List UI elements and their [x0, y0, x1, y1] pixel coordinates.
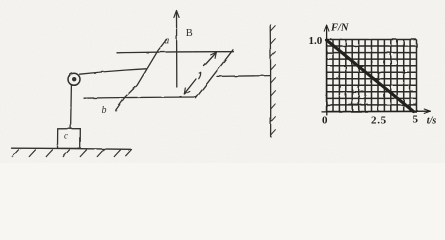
- graph: [327, 40, 417, 112]
- B field arrow line: [176, 11, 178, 87]
- ground: [12, 148, 131, 149]
- B arrowhead: [174, 11, 179, 18]
- grid vertical lines: [327, 40, 417, 112]
- pulley hub: [72, 77, 76, 81]
- bottom rail: [84, 97, 197, 98]
- svg-text:2.5: 2.5: [371, 114, 387, 126]
- svg-text:0: 0: [322, 114, 328, 126]
- pulley wheel: [68, 73, 80, 85]
- y axis arrowhead: [324, 25, 329, 31]
- rod ab diagonal: [116, 40, 167, 111]
- y axis: [326, 26, 328, 116]
- string pulley to block: [70, 85, 73, 129]
- rope loop to wall: [217, 75, 270, 78]
- svg-text:B: B: [186, 28, 193, 39]
- top rail: [117, 52, 233, 53]
- block c: [58, 129, 81, 149]
- dimension arrowhead top: [211, 52, 217, 58]
- right edge of plane: [196, 50, 233, 98]
- dimension arrowhead bottom: [184, 88, 190, 94]
- svg-text:b: b: [102, 105, 107, 116]
- svg-text:1.0: 1.0: [309, 35, 323, 47]
- dimension arrow l lower shaft: [184, 79, 196, 94]
- grid horizontal lines: [327, 40, 417, 112]
- wall hatching: [270, 26, 275, 135]
- svg-text:a: a: [164, 36, 169, 47]
- svg-text:t/s: t/s: [427, 116, 437, 127]
- ground hatching: [12, 150, 131, 157]
- x axis arrowhead: [424, 109, 430, 113]
- wall line: [269, 25, 271, 137]
- x axis: [322, 110, 430, 113]
- paper background: [0, 0, 445, 163]
- svg-text:F/N: F/N: [330, 23, 349, 34]
- label l (script ell): [199, 72, 201, 78]
- F-t line: [327, 40, 414, 112]
- dimension arrow l upper shaft: [204, 53, 216, 67]
- svg-text:5: 5: [413, 114, 419, 126]
- rope pulley to rod: [80, 69, 146, 74]
- svg-text:c: c: [64, 131, 68, 141]
